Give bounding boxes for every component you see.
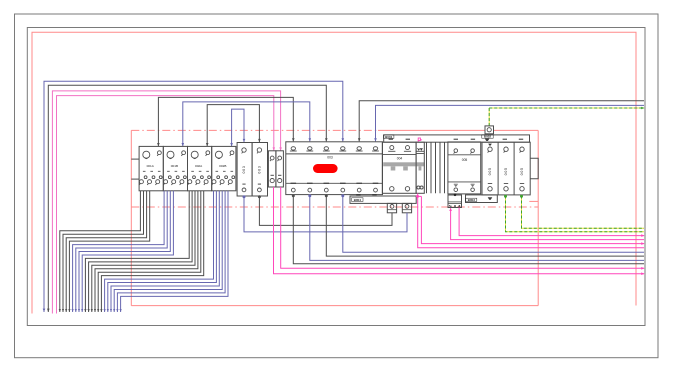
wire load 19 staircase: [117, 191, 225, 312]
wire pink 005 aux b: [459, 208, 644, 236]
wire pink feeder to aux module A top: [57, 96, 274, 314]
svg-text:005: 005: [504, 167, 508, 175]
svg-text:001B: 001B: [171, 164, 178, 168]
wire zone boundary right: [537, 130, 539, 305]
wire load 14 staircase: [101, 191, 203, 312]
bar clip dashes: [356, 194, 377, 196]
wire PE relay2 run: [506, 196, 645, 232]
wire black 001A output to T1: [158, 97, 293, 146]
wire PE relay3 run: [522, 196, 645, 229]
wire blue switch B2 run: [310, 196, 644, 261]
wire load 8 staircase: [82, 191, 173, 312]
aux module of 004: [416, 142, 424, 193]
terminal box X1: [387, 203, 396, 212]
wire black 002A output to contactor K2 top: [207, 105, 259, 147]
svg-text:002A: 002A: [195, 164, 203, 168]
svg-text:001A: 001A: [147, 164, 155, 168]
DIN bar under switch with B004: [350, 196, 416, 203]
wire blue contactor K1 to X2: [244, 196, 407, 232]
red handle: [313, 164, 338, 173]
wire salmon jog stub: [529, 200, 538, 202]
wire zone boundary top dash-dot: [131, 129, 378, 131]
wire pink 005 aux a: [451, 208, 644, 239]
label box B002: [482, 135, 493, 138]
aux contact module 1: [268, 151, 276, 187]
wire stub feed 001A upper: [131, 158, 139, 160]
svg-text:004: 004: [397, 157, 403, 161]
svg-text:005: 005: [462, 158, 468, 162]
right group divider 1: [497, 142, 499, 195]
wire black switch T5 to right edge: [359, 101, 644, 142]
wire load 4 staircase: [69, 191, 149, 312]
wire zone boundary bottom: [131, 305, 538, 307]
wire load 15 staircase: [105, 191, 214, 312]
svg-text:005: 005: [520, 167, 524, 175]
main switch 003 body: [286, 142, 383, 195]
triangle mark under B002: [485, 139, 490, 141]
breaker 004 bottom terminals: [390, 187, 410, 191]
wire pink 004 aux b: [421, 196, 644, 243]
wire pink feeder to aux module B top: [52, 91, 280, 314]
switch terminal pin x=293.3: [290, 147, 297, 192]
wire load 2 staircase: [63, 191, 144, 312]
wire load 6 staircase: [76, 191, 167, 312]
triangle under first relay: [488, 144, 492, 146]
wire salmon supply boundary: [32, 32, 636, 313]
wire blue switch T6 to right edge: [376, 105, 645, 141]
wire black contactor K2 to X1: [259, 196, 392, 225]
breaker module 002B: [212, 146, 236, 190]
breaker module 001A: [139, 146, 163, 190]
wire load 17 staircase: [111, 191, 219, 312]
svg-text:003: 003: [242, 165, 246, 173]
wire pink aux A run: [274, 187, 645, 274]
svg-text:003: 003: [327, 156, 333, 160]
wire earth PE run top: [489, 107, 644, 109]
wire blue 001B output to T2: [183, 102, 310, 146]
wire load 13 staircase: [98, 191, 201, 312]
right module group frame: [482, 142, 530, 195]
wire load 12 staircase: [95, 191, 198, 312]
wire stub feed 001A lower: [131, 178, 139, 180]
svg-text:005: 005: [488, 167, 492, 175]
breaker module 002A: [188, 146, 212, 190]
wire load 9 staircase: [85, 191, 189, 312]
wire load 18 staircase: [114, 191, 222, 312]
wire load 5 staircase: [73, 191, 165, 312]
svg-text:B002: B002: [484, 135, 492, 139]
earth terminal box: [485, 126, 494, 134]
link bracket right of group: [530, 158, 538, 179]
wire black feeder L2 to switch terminal T3: [48, 85, 326, 312]
relay 005 unit 2: [504, 147, 509, 191]
wire pink junction stub: [417, 195, 421, 197]
wire black switch B1 run: [293, 196, 644, 264]
svg-text:002B: 002B: [219, 164, 226, 168]
wire load 7 staircase: [79, 191, 170, 312]
switch terminal pin x=375.5: [372, 147, 379, 192]
bar dash marks: [389, 138, 524, 140]
svg-text:B001: B001: [385, 135, 393, 139]
wire load 20 staircase: [121, 191, 228, 312]
DIN bar bottom with B003: [466, 195, 498, 203]
wire black switch B3 run: [326, 196, 644, 257]
switch terminal pin x=309.8: [306, 147, 313, 192]
pink clip symbol: [418, 138, 422, 142]
switch terminal pin x=359.2: [356, 147, 363, 192]
wire pink aux B run: [281, 187, 644, 268]
wire blue feeder L1 to switch terminal T4: [44, 81, 343, 312]
terminal strip under 005: [448, 195, 462, 208]
relay 005 unit 1: [488, 147, 493, 191]
DIN bar top: [384, 135, 530, 142]
label box B001: [384, 135, 394, 138]
breaker module 001B: [163, 146, 187, 190]
wire load 11 staircase: [92, 191, 195, 312]
pink arrow up into 005 strip: [449, 208, 452, 211]
relay 005 unit 3: [520, 147, 525, 191]
wire load 10 staircase: [89, 191, 193, 312]
svg-text:B004: B004: [354, 198, 362, 202]
breaker 004 inner line: [382, 153, 416, 155]
aux contact module 2: [276, 151, 284, 187]
wire zone boundary top solid: [378, 129, 538, 131]
contactor 003 unit 1: [237, 143, 252, 197]
wire zone boundary mid dash-dot: [131, 206, 538, 208]
contactor 003 unit 2: [252, 143, 267, 197]
svg-text:B003: B003: [468, 198, 476, 202]
switch terminal pin x=326.3: [323, 147, 330, 192]
svg-text:003: 003: [258, 165, 262, 173]
wire pink 004 aux a: [418, 193, 644, 247]
wire load 1 staircase: [60, 191, 141, 312]
wire blue 002B output to contactor K1 top: [232, 109, 244, 146]
wire zone boundary left: [130, 130, 132, 305]
DIN spacer lines: [427, 142, 445, 193]
switch terminal pin x=342.8: [339, 147, 346, 192]
breaker 004 grey toggle bar: [383, 162, 424, 166]
right group divider 2: [513, 142, 515, 195]
device 005 body: [448, 142, 481, 194]
breaker 004 body: [382, 142, 416, 193]
terminal box X2: [402, 203, 411, 212]
wire load 16 staircase: [108, 191, 217, 312]
wire load 3 staircase: [66, 191, 146, 312]
wire blue switch B4 run: [343, 196, 644, 253]
inner border frame: [27, 28, 645, 326]
